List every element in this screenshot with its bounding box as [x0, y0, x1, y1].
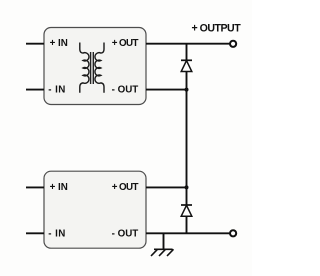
- wire U2 -IN: [26, 232, 44, 234]
- wire U1 +OUT to +OUTPUT terminal: [146, 43, 230, 45]
- svg-text:- IN: - IN: [48, 85, 66, 96]
- svg-text:- OUT: - OUT: [112, 228, 139, 239]
- transformer T1 core: [91, 52, 94, 84]
- terminal output return: [230, 230, 236, 236]
- node A junction: [185, 88, 189, 92]
- wire U2 -OUT to output terminal: [146, 232, 230, 234]
- terminal +OUTPUT: [230, 41, 236, 47]
- wire U2 +OUT to node B: [146, 186, 187, 188]
- converter module U2 box (bottom): [44, 171, 146, 248]
- wire vertical bus upper segment: [186, 44, 188, 61]
- svg-text:+ OUT: + OUT: [112, 38, 139, 49]
- svg-text:+ IN: + IN: [50, 182, 68, 193]
- svg-text:- OUT: - OUT: [112, 85, 139, 96]
- diode D1: [181, 60, 192, 71]
- svg-text:+ OUTPUT: + OUTPUT: [192, 23, 242, 35]
- transformer T1 secondary winding: [95, 43, 104, 93]
- diode D2: [181, 205, 192, 216]
- svg-text:+ IN: + IN: [50, 38, 68, 49]
- wire U1 -OUT to node A: [146, 89, 187, 91]
- converter module U1 box (top): [44, 28, 146, 105]
- wire D2 anode to -OUT wire: [186, 216, 188, 233]
- svg-text:- IN: - IN: [48, 228, 66, 239]
- node B junction: [185, 185, 189, 189]
- wire U1 +IN: [26, 43, 44, 45]
- transformer T1 primary winding: [80, 43, 89, 93]
- ground: [151, 233, 174, 256]
- wire node A to node B: [186, 90, 188, 188]
- svg-text:+ OUT: + OUT: [112, 182, 139, 193]
- wire node B to D2 cathode: [186, 187, 188, 205]
- wire U1 -IN: [26, 89, 44, 91]
- wire D1 anode to node A: [186, 72, 188, 90]
- wire U2 +IN: [26, 186, 44, 188]
